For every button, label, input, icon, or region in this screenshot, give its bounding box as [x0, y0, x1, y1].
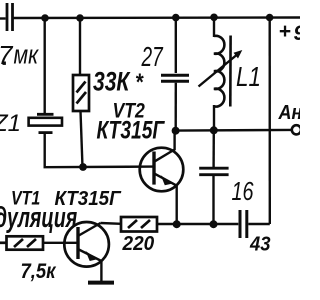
node L1 bottom junction [210, 126, 218, 134]
wire collector rail to antenna [176, 129, 292, 132]
svg-text:220: 220 [122, 233, 155, 256]
wire 33K top [79, 18, 81, 75]
wire L1 top [213, 17, 215, 37]
svg-text:7: 7 [0, 40, 14, 70]
svg-text:мк: мк [14, 41, 39, 71]
wire top rail [14, 16, 301, 19]
svg-text:7,5к: 7,5к [21, 260, 57, 283]
wire VT1 base [43, 242, 78, 244]
ground [88, 281, 114, 285]
node top B (33K branch) [76, 14, 84, 22]
node 16pF bottom junction [210, 220, 218, 228]
transistor VT1 [64, 222, 109, 267]
wire 16pF bottom [212, 176, 214, 224]
svg-text:Z1: Z1 [0, 110, 21, 137]
node 33K bottom junction [79, 163, 87, 171]
svg-text:Ан: Ан [278, 102, 300, 124]
node VT2 emitter junction [173, 220, 181, 228]
svg-text:33К: 33К [93, 67, 131, 97]
wire 27pF bottom [174, 83, 177, 131]
node top E (+9V branch) [266, 14, 274, 22]
wire 16pF top [212, 130, 215, 167]
wire VT2 emitter drop [175, 186, 177, 225]
resistor R2 7,5к [0, 236, 43, 249]
wire VT1 emitter drop [100, 261, 102, 282]
wire 43 to +9V riser [248, 223, 269, 225]
capacitor C4 43 [240, 210, 247, 238]
terminal antenna [292, 125, 301, 134]
svg-text:+: + [279, 20, 291, 43]
label 33К * [93, 67, 144, 97]
crystal Z1 [29, 114, 62, 132]
wire 27pF top [175, 18, 177, 73]
transistor VT2 [140, 131, 184, 191]
wire crystal bottom to VT2 base [45, 133, 154, 168]
label 7мк [0, 40, 39, 70]
node VT2 collector junction [172, 127, 180, 135]
label + 9 [279, 20, 306, 45]
svg-text:43: 43 [249, 233, 271, 256]
svg-text:9: 9 [294, 22, 301, 45]
node top C (27pF branch) [172, 14, 180, 22]
capacitor C3 16 [199, 168, 228, 175]
resistor R1 33К [73, 75, 89, 111]
resistor R3 220 [121, 217, 157, 232]
wire 33K bottom [81, 111, 83, 167]
inductor L1 [214, 36, 224, 107]
adjustment arrow of L1 [199, 50, 243, 87]
node top D (L1 branch) [210, 13, 218, 21]
svg-text:L1: L1 [236, 62, 261, 93]
node top A (crystal branch) [41, 14, 49, 22]
svg-text:Модуляция: Модуляция [0, 202, 78, 234]
wire crystal top drop [44, 18, 46, 113]
svg-text:27: 27 [141, 41, 164, 73]
capacitor C-in (input coupling) [0, 3, 13, 31]
wire L1 bottom [213, 105, 215, 130]
wire VT1 collector to 220 [101, 222, 122, 225]
wire emitter rail [157, 223, 238, 225]
capacitor C2 27 [161, 75, 189, 81]
svg-text:16: 16 [232, 176, 254, 205]
svg-text:КТ315Г: КТ315Г [97, 116, 166, 144]
wire +9V riser [269, 18, 271, 224]
core of L1 [229, 36, 232, 107]
